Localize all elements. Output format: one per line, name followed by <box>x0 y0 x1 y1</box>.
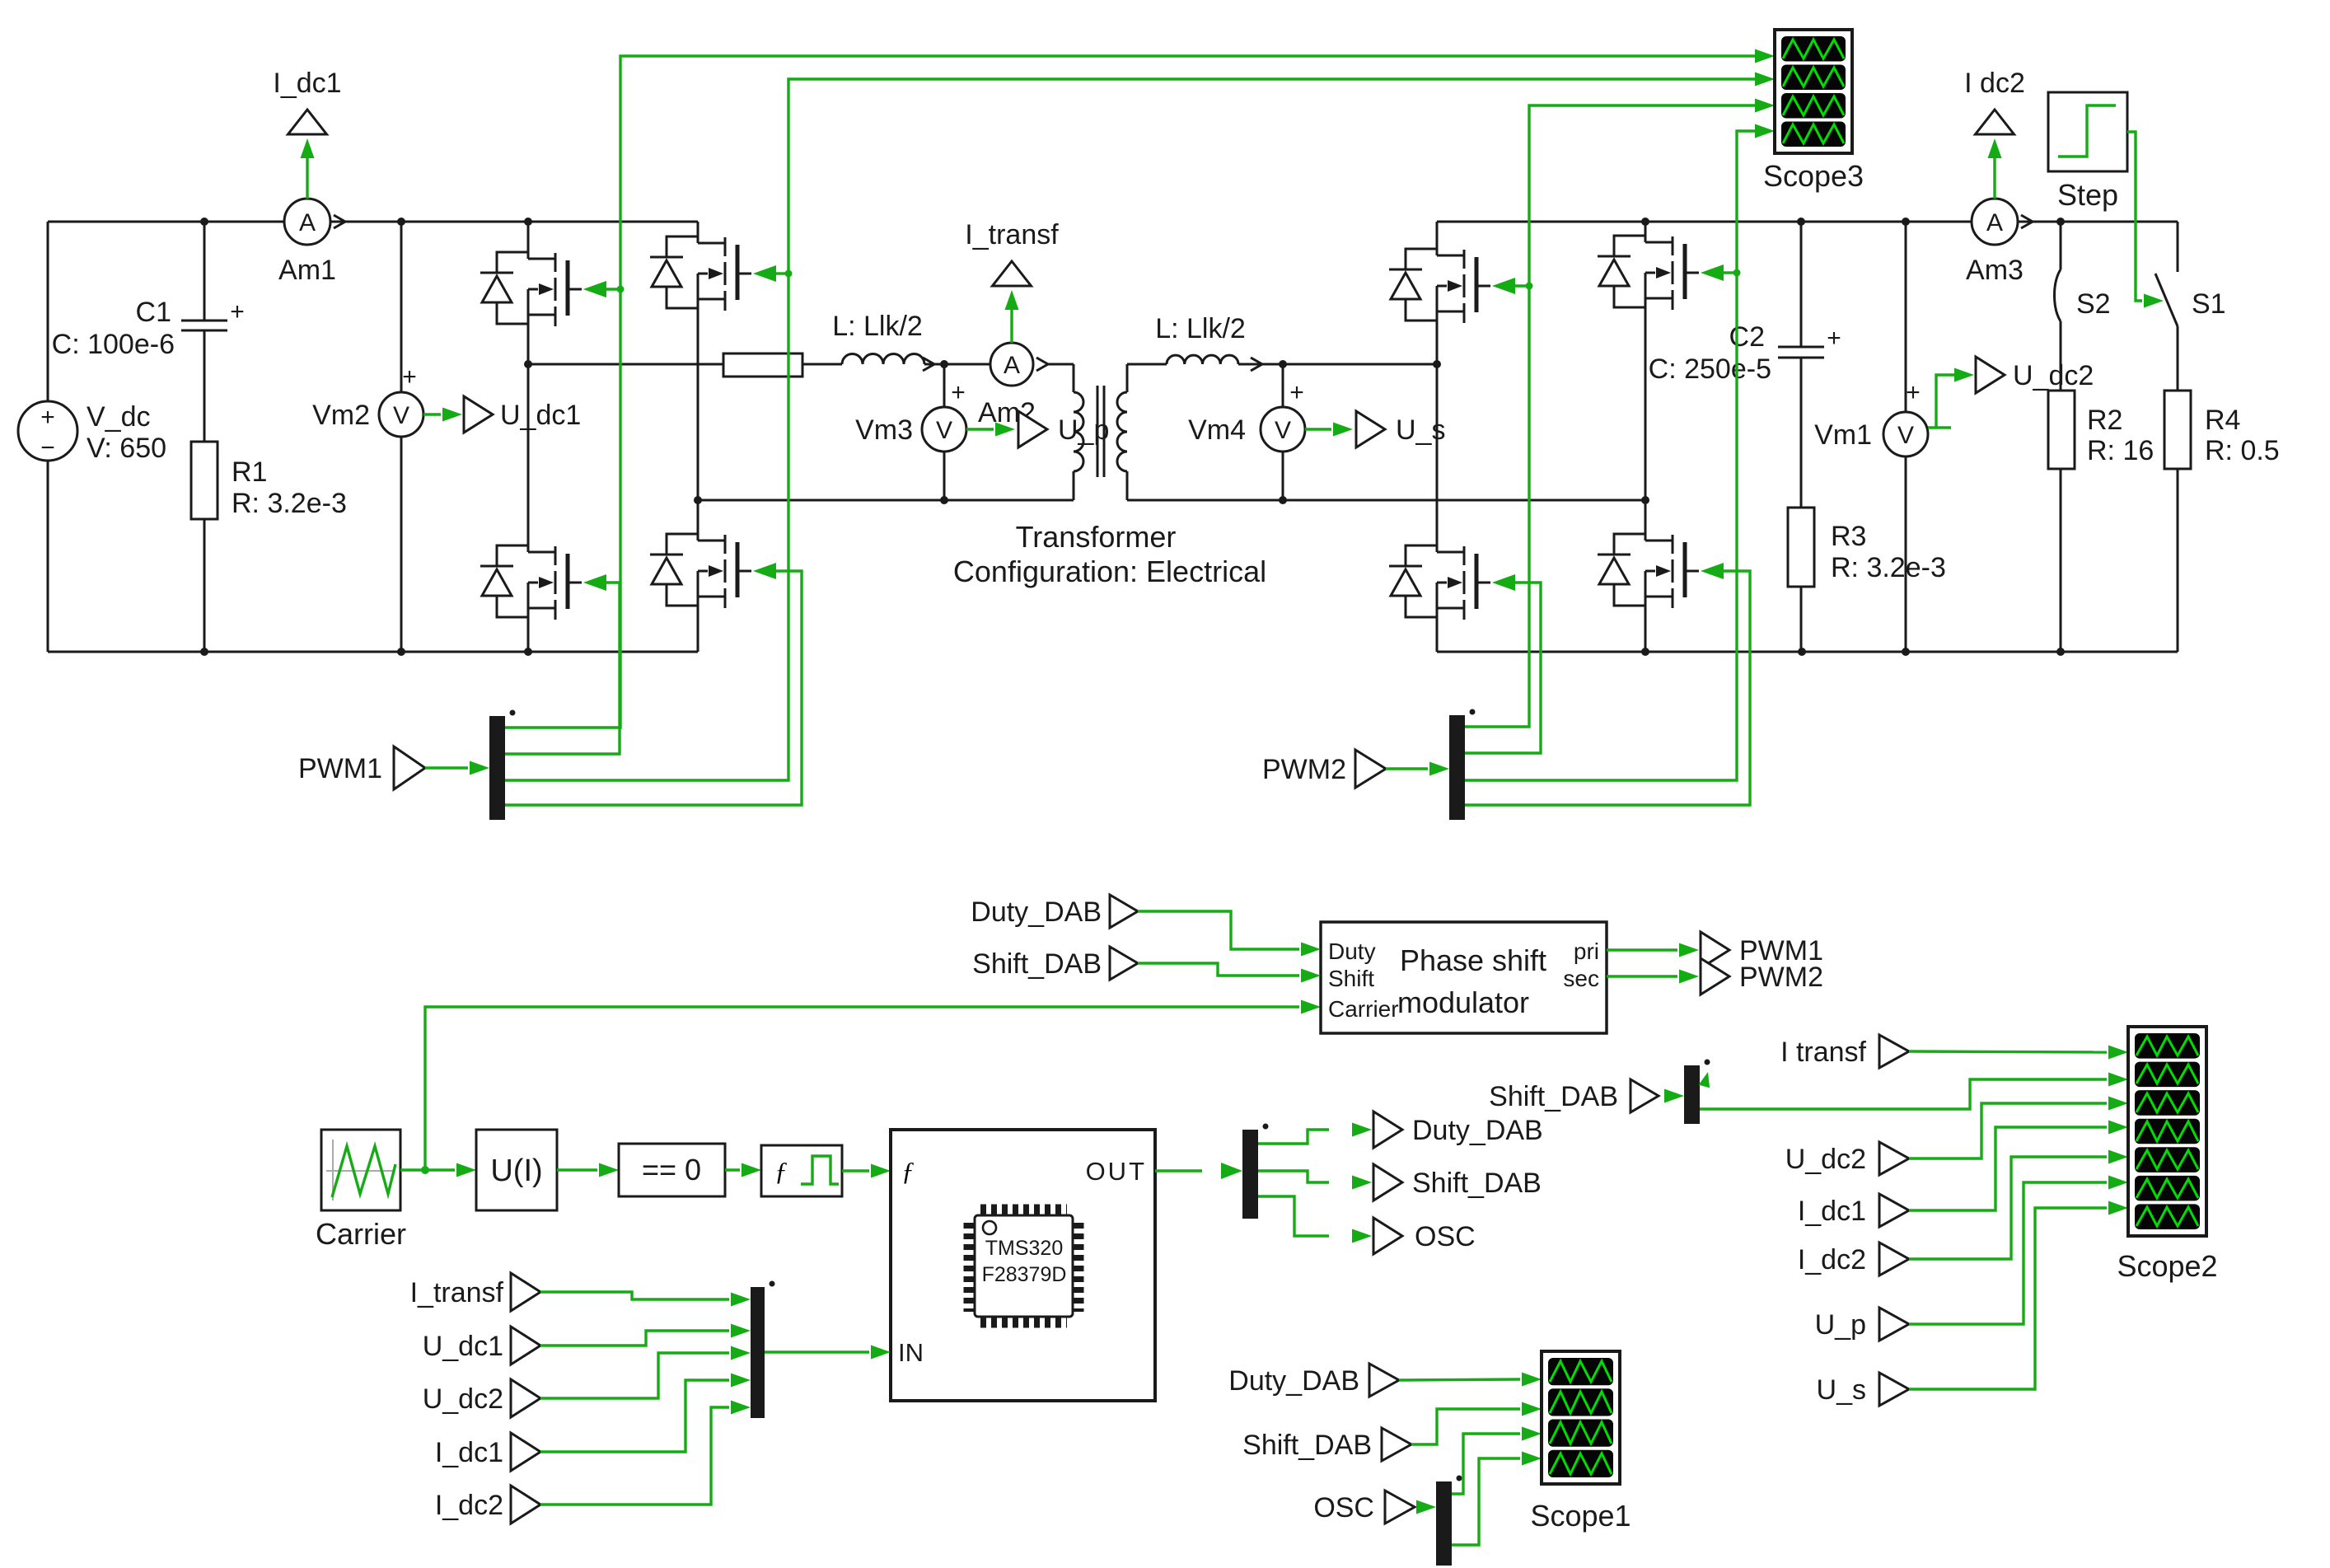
resistor R2 <box>2048 391 2075 469</box>
wire: bridge2 left leg <box>1436 222 1439 255</box>
svg-text:I_dc1: I_dc1 <box>273 68 341 99</box>
svg-text:L: Llk/2: L: Llk/2 <box>832 311 923 342</box>
wire: secondary bottom <box>1127 499 1645 502</box>
goto tag OSC <box>1373 1218 1402 1254</box>
transistor FET7 (bridge2 top-right) with diode <box>1598 236 1699 310</box>
wire: PWM2 gate signal 4 to FET8 gate <box>1465 571 1750 805</box>
svg-text:I dc2: I dc2 <box>1964 68 2025 99</box>
goto tag Shift_DAB <box>1373 1164 1402 1201</box>
svg-text:R2: R2 <box>2087 405 2122 436</box>
svg-text:Duty: Duty <box>1328 938 1376 964</box>
svg-text:F28379D: F28379D <box>982 1263 1067 1286</box>
svg-text:Transformer: Transformer <box>1016 520 1177 554</box>
svg-text:C: 100e-6: C: 100e-6 <box>52 329 175 360</box>
svg-text:V: V <box>1275 417 1291 444</box>
inductor L: Llk/2 (secondary) <box>1167 355 1238 364</box>
wire: demux out2 to Shift_DAB tag <box>1258 1171 1329 1182</box>
svg-text:R1: R1 <box>232 456 267 488</box>
svg-text:I_dc1: I_dc1 <box>435 1437 503 1468</box>
chip icon <box>980 1205 1067 1215</box>
signal I_dc1 from Am1 <box>306 148 308 199</box>
svg-text:R3: R3 <box>1831 521 1866 552</box>
svg-text:== 0: == 0 <box>642 1153 701 1187</box>
svg-text:Shift_DAB: Shift_DAB <box>1242 1430 1372 1461</box>
comparator == 0 block <box>619 1144 725 1196</box>
wire: OSC demux out2 to Scope1 <box>1452 1458 1520 1545</box>
wire: Shift_DAB demux to Scope2 input2 <box>1700 1079 2107 1109</box>
svg-text:OSC: OSC <box>1415 1221 1476 1252</box>
svg-text:V_dc: V_dc <box>87 401 151 433</box>
scope Scope3 <box>1775 30 1852 153</box>
svg-text:+: + <box>230 298 245 325</box>
svg-text:pri: pri <box>1574 938 1599 964</box>
svg-text:V: V <box>936 417 952 444</box>
DSP C-script block (TMS320F28379D) <box>891 1130 1155 1401</box>
signal U_p from Vm3 <box>966 428 994 430</box>
wire: demux out3 to OSC tag <box>1258 1196 1329 1236</box>
svg-text:Step: Step <box>2057 178 2118 212</box>
voltmeter Vm2 <box>400 222 403 392</box>
demux for OSC <box>1436 1481 1452 1566</box>
svg-text:ƒ: ƒ <box>774 1156 788 1186</box>
svg-text:V: V <box>1897 422 1914 449</box>
svg-text:R: 3.2e-3: R: 3.2e-3 <box>1831 552 1946 583</box>
scope Scope2 <box>2128 1027 2206 1236</box>
wire: PWM1 gate signal 3 to Scope3 input2 and FET3 gate <box>505 79 1755 780</box>
svg-text:A: A <box>299 209 316 236</box>
svg-text:Carrier: Carrier <box>1328 996 1399 1022</box>
wire: pri to PWM1 tag <box>1607 948 1677 951</box>
voltmeter Vm1 <box>1905 222 1907 412</box>
from tag PWM2 <box>1355 750 1386 788</box>
svg-text:Shift: Shift <box>1328 966 1374 991</box>
transistor FET6 (bridge2 bottom-left) with diode <box>1389 545 1490 620</box>
svg-text:PWM2: PWM2 <box>1739 962 1823 993</box>
transformer primary winding <box>1073 364 1075 392</box>
svg-text:Configuration: Electrical: Configuration: Electrical <box>953 555 1266 588</box>
pulse/monoflop block <box>761 1145 842 1196</box>
mux for PWM2 gate signals <box>1449 715 1465 820</box>
svg-text:+: + <box>1289 379 1304 406</box>
svg-text:sec: sec <box>1563 966 1599 991</box>
node: bus junctions right <box>1641 218 1649 226</box>
inductor L: Llk/2 (primary) <box>842 354 924 365</box>
phase shift modulator block <box>1321 922 1607 1033</box>
wire: left rail vertical <box>47 222 49 401</box>
svg-text:ƒ: ƒ <box>901 1156 915 1186</box>
wire: sec to PWM2 tag <box>1607 975 1677 977</box>
transformer core <box>1097 386 1099 477</box>
scope Scope1 <box>1542 1351 1620 1484</box>
demux for Shift_DAB <box>1684 1065 1700 1124</box>
svg-text:Duty_DAB: Duty_DAB <box>1228 1365 1359 1397</box>
voltage source V_dc <box>18 401 77 461</box>
signal U_s from Vm4 <box>1305 428 1331 430</box>
svg-text:Duty_DAB: Duty_DAB <box>1412 1115 1543 1146</box>
svg-text:Scope3: Scope3 <box>1763 159 1864 193</box>
svg-text:C2: C2 <box>1729 321 1765 353</box>
U(I) lookup block <box>476 1130 557 1210</box>
svg-text:Phase shift: Phase shift <box>1400 943 1546 977</box>
svg-text:R: 3.2e-3: R: 3.2e-3 <box>232 488 347 519</box>
svg-text:Scope1: Scope1 <box>1530 1499 1631 1533</box>
wire: PWM2 gate signal 2 to FET6 gate <box>1465 583 1541 753</box>
node: bridge1 output nodes <box>524 360 532 368</box>
ammeter Am2 <box>944 363 990 366</box>
goto tag Duty_DAB <box>1373 1112 1402 1148</box>
wire: carrier to modulator <box>425 1007 1299 1170</box>
series resistor box (unlabeled) <box>723 353 802 377</box>
svg-text:V: 650: V: 650 <box>87 433 166 464</box>
svg-text:I_dc2: I_dc2 <box>1798 1244 1866 1275</box>
wire: PWM1 gate signal 4 to FET4 gate <box>505 571 802 805</box>
svg-text:L: Llk/2: L: Llk/2 <box>1155 313 1246 344</box>
svg-text:TMS320: TMS320 <box>985 1237 1063 1260</box>
switch S2 <box>2060 222 2062 269</box>
svg-text:−: − <box>40 434 55 461</box>
from tag PWM1 <box>394 747 425 789</box>
wire: OSC demux out1 to Scope1 <box>1452 1434 1520 1494</box>
svg-text:U_s: U_s <box>1817 1374 1866 1406</box>
svg-text:OSC: OSC <box>1313 1492 1374 1524</box>
ammeter Am1 <box>284 221 285 223</box>
svg-text:Carrier: Carrier <box>316 1217 406 1251</box>
signal U_dc2 from Vm1 <box>1928 375 1954 428</box>
transistor FET1 (bridge1 top-left) with diode <box>480 252 582 326</box>
svg-text:Vm3: Vm3 <box>855 414 913 446</box>
svg-text:Shift_DAB: Shift_DAB <box>1489 1081 1618 1112</box>
wire: PWM2 gate signal 3 to Scope3 input4 and FET7 gate <box>1465 131 1755 780</box>
svg-text:Shift_DAB: Shift_DAB <box>972 948 1102 980</box>
svg-text:U_dc2: U_dc2 <box>423 1383 503 1415</box>
svg-text:+: + <box>40 404 55 431</box>
svg-text:U_dc2: U_dc2 <box>2013 360 2094 391</box>
svg-text:Vm4: Vm4 <box>1188 414 1246 446</box>
transistor FET4 (bridge1 bottom-right) with diode <box>650 534 751 608</box>
switch S1 <box>2177 222 2179 272</box>
wire: PWM1 gate signal 1 to Scope3 input1 and FET1 gate <box>505 56 1755 728</box>
goto tag PWM2 <box>1701 958 1729 995</box>
svg-text:I_transf: I_transf <box>410 1277 504 1308</box>
svg-text:A: A <box>1986 209 2003 236</box>
voltmeter Vm4 <box>1282 364 1284 407</box>
svg-text:U_dc1: U_dc1 <box>423 1331 503 1362</box>
resistor R3 <box>1788 508 1814 587</box>
wire: top bus left section <box>48 221 284 223</box>
wire: bottom rail right section <box>1437 651 2178 653</box>
svg-text:Vm1: Vm1 <box>1814 419 1872 451</box>
wire: bridge1 right leg <box>697 222 699 243</box>
svg-text:C: 250e-5: C: 250e-5 <box>1649 353 1771 385</box>
svg-text:I transf: I transf <box>1780 1037 1866 1068</box>
transistor FET2 (bridge1 bottom-left) with diode <box>480 545 582 620</box>
svg-text:Vm2: Vm2 <box>312 400 370 431</box>
svg-text:R: 16: R: 16 <box>2087 435 2154 466</box>
svg-text:IN: IN <box>898 1338 924 1367</box>
svg-text:Duty_DAB: Duty_DAB <box>971 896 1102 928</box>
svg-text:Am3: Am3 <box>1966 255 2024 286</box>
voltmeter Vm3 <box>943 364 946 407</box>
svg-text:+: + <box>1827 325 1841 352</box>
goto tag PWM1 <box>1701 932 1729 968</box>
svg-text:U_p: U_p <box>1815 1309 1866 1341</box>
signal U_dc1 from Vm2 <box>423 413 441 415</box>
ammeter Am3 <box>1972 199 2018 245</box>
svg-text:V: V <box>393 402 409 429</box>
wire: bottom rail left section <box>48 651 698 653</box>
svg-text:I_transf: I_transf <box>965 219 1059 250</box>
wire: top bus right section <box>1437 221 1972 223</box>
svg-text:PWM2: PWM2 <box>1262 754 1346 785</box>
svg-text:S2: S2 <box>2076 288 2111 320</box>
svg-text:I_dc1: I_dc1 <box>1798 1196 1866 1227</box>
svg-text:I_dc2: I_dc2 <box>435 1490 503 1521</box>
svg-text:+: + <box>402 363 417 391</box>
wire: carrier output <box>400 1168 455 1171</box>
svg-text:S1: S1 <box>2192 288 2226 320</box>
svg-text:+: + <box>1906 379 1921 406</box>
resistor R4 <box>2164 391 2191 469</box>
svg-text:U(I): U(I) <box>490 1154 542 1188</box>
svg-text:A: A <box>1004 352 1020 379</box>
wire: demux out1 to Duty_DAB tag <box>1258 1130 1329 1144</box>
svg-text:R4: R4 <box>2205 405 2240 436</box>
transistor FET3 (bridge1 top-right) with diode <box>650 236 751 311</box>
svg-text:U_dc2: U_dc2 <box>1785 1144 1866 1175</box>
wire: bridge1 left leg <box>527 222 530 259</box>
transformer secondary winding <box>1126 364 1129 392</box>
capacitor C1 <box>204 222 206 321</box>
signal I_transf from Am2 <box>1010 297 1013 343</box>
mux at DSP IN <box>751 1287 765 1418</box>
wire: bridge1 bottom mid rail <box>698 499 1074 502</box>
svg-text:OUT: OUT <box>1086 1157 1147 1186</box>
svg-text:C1: C1 <box>136 297 171 328</box>
svg-text:modulator: modulator <box>1397 985 1529 1019</box>
wire: bridge1 mid to series box <box>528 363 723 366</box>
wire: PWM1 gate signal 2 to FET2 gate <box>505 583 620 754</box>
svg-text:R: 0.5: R: 0.5 <box>2205 435 2280 466</box>
svg-text:Am1: Am1 <box>278 255 336 286</box>
carrier generator block <box>321 1130 400 1210</box>
resistor R1 <box>191 442 218 519</box>
svg-text:U_dc1: U_dc1 <box>500 400 581 431</box>
step source block <box>2048 92 2127 171</box>
wire: bridge2 right leg <box>1645 222 1647 242</box>
svg-text:+: + <box>951 379 966 406</box>
wire: OUT to demux <box>1155 1169 1202 1172</box>
wire: PWM2 gate signal 1 to Scope3 input3 and FET5 gate <box>1465 105 1755 727</box>
transistor FET5 (bridge2 top-left) with diode <box>1389 249 1490 323</box>
capacitor C2 <box>1800 222 1803 347</box>
mux for PWM1 gate signals <box>489 716 505 820</box>
signal I_dc2 from Am3 <box>1993 148 1995 199</box>
svg-text:Shift_DAB: Shift_DAB <box>1412 1168 1542 1199</box>
svg-text:PWM1: PWM1 <box>298 753 382 784</box>
wire: step to S1 <box>2127 132 2142 301</box>
node: bus junctions left <box>200 218 208 226</box>
demux at DSP OUT <box>1242 1130 1258 1219</box>
svg-text:Scope2: Scope2 <box>2117 1249 2217 1283</box>
transistor FET8 (bridge2 bottom-right) with diode <box>1598 534 1699 608</box>
wire: secondary top <box>1127 363 1167 366</box>
